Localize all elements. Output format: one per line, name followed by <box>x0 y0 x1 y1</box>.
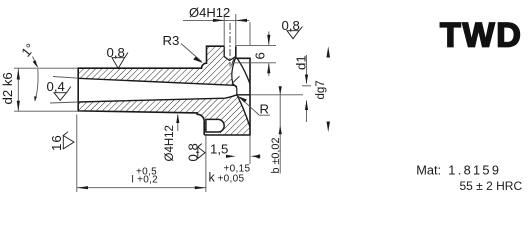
svg-text:l +0,2: l +0,2 <box>132 175 159 186</box>
flange left extension down <box>205 136 207 192</box>
svg-text:TWD: TWD <box>440 17 523 55</box>
b dimension <box>279 87 281 174</box>
k dimension arrows <box>226 155 236 158</box>
right face extension down <box>249 136 251 164</box>
funnel curve B <box>232 59 237 95</box>
funnel curve A <box>237 59 250 85</box>
extension line hole bottom right <box>232 62 276 64</box>
right face extension up <box>249 22 251 46</box>
1 degree label <box>18 41 37 60</box>
funnel curve C <box>237 95 250 127</box>
extension line top edge left <box>14 67 78 69</box>
dimension line d2 k6 <box>17 69 19 112</box>
svg-text:d2 k6: d2 k6 <box>0 72 15 104</box>
bullet hole bottom (white) <box>206 132 220 134</box>
svg-text:b ±0,02: b ±0,02 <box>270 138 282 174</box>
hatch top wall <box>78 46 237 87</box>
svg-text:6: 6 <box>253 52 268 59</box>
svg-text:1,5: 1,5 <box>210 142 228 157</box>
dimension line 6 with arrows <box>268 32 270 45</box>
boss hole walls <box>224 46 236 60</box>
svg-text:Ø4H12: Ø4H12 <box>164 125 176 161</box>
extension line bottom edge left <box>14 110 78 112</box>
l dimension bottom <box>77 187 206 189</box>
svg-text:55 ± 2 HRC: 55 ± 2 HRC <box>460 179 523 193</box>
dimension line Ø4H12 top <box>183 19 250 21</box>
16 symbol left bottom <box>49 134 64 151</box>
svg-text:16: 16 <box>49 134 64 151</box>
arrowheads Ø4H12 top <box>213 19 224 22</box>
extension line throat bottom right <box>250 94 303 96</box>
part outline <box>78 46 250 135</box>
svg-text:1°: 1° <box>18 41 37 60</box>
bore top line <box>78 78 237 87</box>
centerline boss hole <box>229 23 231 67</box>
svg-text:Mat:: Mat: <box>416 163 441 178</box>
svg-text:1.8159: 1.8159 <box>448 163 501 178</box>
extension tick d1 upper <box>302 85 311 87</box>
hatch bottom wall and flange <box>78 95 250 135</box>
svg-text:+0,05: +0,05 <box>218 174 245 185</box>
extension lines hole walls <box>223 14 225 46</box>
svg-text:dg7: dg7 <box>315 80 327 99</box>
extension line boss top right <box>236 44 276 46</box>
funnel cone lines <box>232 59 235 66</box>
bore bottom line <box>78 95 237 102</box>
dg7 label <box>315 80 327 99</box>
bottom 0,8 symbol <box>186 143 201 161</box>
svg-text:k: k <box>209 171 216 185</box>
dimension line d1 with arrows <box>306 55 308 84</box>
svg-text:0,4: 0,4 <box>47 79 65 94</box>
svg-text:R3: R3 <box>163 33 180 48</box>
svg-text:R: R <box>260 102 270 117</box>
bore top extension line left <box>53 77 78 79</box>
bore bottom extension line left <box>50 102 78 103</box>
bottom Ø4H12 leader <box>177 115 179 131</box>
svg-text:d1: d1 <box>294 55 309 70</box>
left face extension down <box>76 115 78 193</box>
